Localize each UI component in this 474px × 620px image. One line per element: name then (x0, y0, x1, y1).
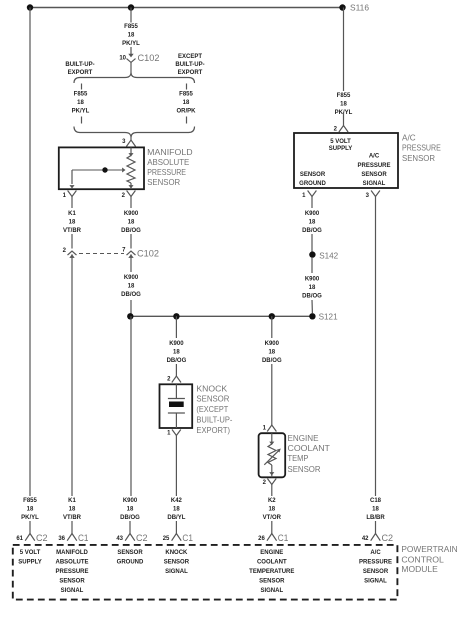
svg-text:SENSOR: SENSOR (147, 177, 180, 187)
svg-text:18: 18 (128, 220, 135, 226)
svg-text:BUILT-UP-: BUILT-UP- (196, 414, 232, 424)
svg-text:K900: K900 (305, 211, 320, 217)
svg-text:SUPPLY: SUPPLY (18, 559, 41, 565)
svg-text:BUILT-UP-: BUILT-UP- (65, 62, 94, 68)
svg-text:18: 18 (69, 507, 76, 513)
svg-text:K900: K900 (124, 275, 139, 281)
svg-text:43: 43 (116, 536, 123, 542)
svg-text:SENSOR: SENSOR (259, 578, 285, 584)
svg-text:C2: C2 (36, 533, 48, 543)
svg-text:18: 18 (372, 507, 379, 513)
svg-text:SENSOR: SENSOR (59, 578, 85, 584)
svg-text:18: 18 (340, 102, 347, 108)
svg-text:18: 18 (27, 507, 34, 513)
svg-text:VT/BR: VT/BR (63, 228, 82, 234)
svg-text:ABSOLUTE: ABSOLUTE (56, 559, 89, 565)
svg-text:DB/YL: DB/YL (167, 515, 185, 521)
svg-text:36: 36 (58, 536, 65, 542)
svg-text:F855: F855 (179, 92, 193, 98)
svg-text:SENSOR: SENSOR (196, 394, 229, 404)
svg-text:DB/OG: DB/OG (302, 228, 322, 234)
svg-text:SENSOR: SENSOR (363, 569, 389, 575)
svg-text:DB/OG: DB/OG (167, 358, 187, 364)
svg-text:COOLANT: COOLANT (288, 443, 330, 453)
svg-text:K900: K900 (169, 341, 184, 347)
svg-text:PRESSURE: PRESSURE (147, 167, 186, 177)
svg-text:KNOCK: KNOCK (196, 384, 227, 394)
svg-text:MODULE: MODULE (401, 564, 438, 574)
svg-text:SENSOR: SENSOR (164, 559, 190, 565)
svg-text:MANIFOLD: MANIFOLD (147, 147, 192, 157)
svg-text:A/C: A/C (370, 550, 381, 556)
svg-text:GROUND: GROUND (117, 559, 144, 565)
svg-text:DB/OG: DB/OG (121, 292, 141, 298)
svg-text:K1: K1 (68, 498, 76, 504)
svg-text:18: 18 (268, 507, 275, 513)
svg-text:EXCEPT: EXCEPT (178, 54, 202, 60)
svg-text:C102: C102 (137, 249, 159, 259)
svg-text:SENSOR: SENSOR (402, 153, 435, 163)
svg-text:5 VOLT: 5 VOLT (20, 550, 41, 556)
svg-text:C2: C2 (382, 533, 394, 543)
svg-text:EXPORT: EXPORT (68, 70, 93, 76)
svg-text:GROUND: GROUND (299, 181, 326, 187)
svg-text:PRESSURE: PRESSURE (55, 569, 88, 575)
svg-text:ENGINE: ENGINE (260, 550, 283, 556)
svg-text:SENSOR: SENSOR (361, 172, 387, 178)
svg-text:PK/YL: PK/YL (21, 515, 39, 521)
svg-text:F855: F855 (337, 93, 351, 99)
svg-text:K900: K900 (124, 211, 139, 217)
svg-text:18: 18 (183, 100, 190, 106)
svg-text:18: 18 (309, 285, 316, 291)
svg-text:SUPPLY: SUPPLY (329, 146, 352, 152)
svg-text:PRESSURE: PRESSURE (359, 559, 392, 565)
svg-text:26: 26 (258, 536, 265, 542)
svg-text:TEMPERATURE: TEMPERATURE (249, 569, 294, 575)
svg-text:LB/BR: LB/BR (366, 515, 385, 521)
svg-text:61: 61 (16, 536, 23, 542)
svg-text:S121: S121 (319, 311, 338, 321)
svg-text:SIGNAL: SIGNAL (61, 588, 84, 594)
svg-text:18: 18 (127, 507, 134, 513)
svg-text:OR/PK: OR/PK (176, 109, 196, 115)
svg-text:C102: C102 (138, 53, 160, 63)
svg-text:SENSOR: SENSOR (300, 172, 326, 178)
svg-text:K1: K1 (68, 211, 76, 217)
svg-text:S116: S116 (350, 3, 369, 13)
svg-text:18: 18 (77, 100, 84, 106)
svg-text:C18: C18 (370, 498, 382, 504)
svg-text:F855: F855 (74, 92, 88, 98)
svg-text:DB/OG: DB/OG (262, 358, 282, 364)
svg-text:18: 18 (173, 507, 180, 513)
svg-text:K900: K900 (305, 277, 320, 283)
svg-text:CONTROL: CONTROL (401, 554, 444, 564)
svg-text:18: 18 (128, 33, 135, 39)
svg-text:C1: C1 (182, 533, 193, 543)
svg-text:(EXCEPT: (EXCEPT (196, 404, 228, 414)
svg-text:VT/OR: VT/OR (263, 515, 282, 521)
svg-text:EXPORT: EXPORT (178, 70, 203, 76)
svg-text:TEMP: TEMP (288, 453, 309, 463)
svg-text:25: 25 (163, 536, 170, 542)
svg-text:F855: F855 (23, 498, 37, 504)
svg-text:VT/BR: VT/BR (63, 515, 82, 521)
svg-text:PRESSURE: PRESSURE (402, 142, 441, 152)
svg-text:K900: K900 (265, 341, 280, 347)
svg-text:COOLANT: COOLANT (257, 559, 287, 565)
svg-text:POWERTRAIN: POWERTRAIN (401, 544, 457, 554)
svg-text:DB/OG: DB/OG (120, 515, 140, 521)
svg-text:BUILT-UP-: BUILT-UP- (175, 62, 204, 68)
svg-text:PK/YL: PK/YL (122, 41, 140, 47)
svg-text:K2: K2 (268, 498, 276, 504)
svg-text:DB/OG: DB/OG (302, 294, 322, 300)
svg-text:18: 18 (309, 220, 316, 226)
svg-text:18: 18 (128, 284, 135, 290)
svg-text:A/C: A/C (369, 154, 380, 160)
svg-text:SIGNAL: SIGNAL (363, 181, 386, 187)
svg-text:PK/YL: PK/YL (72, 109, 90, 115)
svg-text:A/C: A/C (402, 132, 416, 142)
svg-text:EXPORT): EXPORT) (196, 425, 230, 435)
svg-text:KNOCK: KNOCK (165, 550, 188, 556)
svg-text:F855: F855 (124, 24, 138, 30)
svg-text:18: 18 (69, 220, 76, 226)
svg-text:S142: S142 (319, 250, 338, 260)
svg-text:ENGINE: ENGINE (288, 433, 319, 443)
svg-text:MANIFOLD: MANIFOLD (56, 550, 88, 556)
svg-text:ABSOLUTE: ABSOLUTE (147, 157, 189, 167)
svg-text:C2: C2 (136, 533, 148, 543)
svg-text:18: 18 (173, 350, 180, 356)
svg-text:K900: K900 (123, 498, 138, 504)
svg-text:DB/OG: DB/OG (121, 228, 141, 234)
svg-text:C1: C1 (278, 533, 289, 543)
svg-text:SIGNAL: SIGNAL (165, 569, 188, 575)
svg-text:PRESSURE: PRESSURE (357, 163, 390, 169)
svg-text:SIGNAL: SIGNAL (260, 588, 283, 594)
svg-text:10: 10 (119, 56, 126, 62)
svg-text:18: 18 (268, 350, 275, 356)
svg-text:SIGNAL: SIGNAL (364, 578, 387, 584)
svg-text:SENSOR: SENSOR (117, 550, 143, 556)
svg-text:42: 42 (362, 536, 369, 542)
svg-text:C1: C1 (78, 533, 89, 543)
svg-text:5 VOLT: 5 VOLT (330, 139, 351, 145)
svg-text:K42: K42 (171, 498, 183, 504)
svg-text:SENSOR: SENSOR (288, 464, 321, 474)
